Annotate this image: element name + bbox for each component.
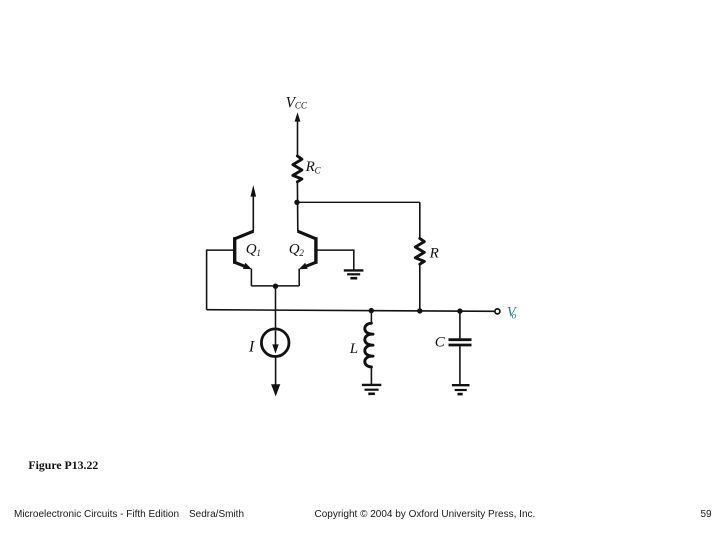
terminal Vo	[495, 309, 500, 314]
svg-text:Microelectronic Circuits - Fif: Microelectronic Circuits - Fifth Edition	[14, 509, 179, 520]
svg-text:R: R	[305, 159, 315, 175]
arrow to VCC supply	[295, 112, 301, 156]
ground (Q2 base)	[344, 270, 364, 278]
svg-text:C: C	[435, 334, 446, 350]
label Q2	[289, 241, 305, 257]
transistor Q1	[235, 231, 254, 269]
node collector junction	[294, 200, 299, 205]
wire Q2 emitter down	[298, 269, 300, 286]
svg-text:Sedra/Smith: Sedra/Smith	[189, 509, 244, 520]
wire Q2 base lead	[316, 250, 354, 269]
node C top	[457, 308, 462, 313]
wire RC to collector node, continues to Q2 collector	[296, 182, 298, 232]
wire C to ground	[459, 346, 461, 384]
ground (C)	[452, 385, 470, 394]
wire rail to L	[370, 311, 372, 324]
inductor L	[365, 323, 373, 367]
current source I	[261, 329, 289, 357]
transistor Q2	[298, 231, 316, 269]
svg-text:Q: Q	[289, 241, 300, 257]
ground (L)	[362, 385, 381, 394]
svg-text:59: 59	[701, 509, 713, 520]
wire Q1 base lead	[207, 250, 235, 310]
wire R to output rail	[419, 264, 421, 311]
svg-text:C: C	[315, 165, 322, 175]
label VCC	[286, 95, 308, 112]
label RC	[305, 159, 322, 175]
node L top	[369, 308, 374, 313]
svg-text:L: L	[349, 341, 358, 357]
svg-text:o: o	[512, 310, 517, 320]
wire L to ground	[370, 367, 372, 384]
svg-text:Q: Q	[246, 241, 257, 257]
svg-text:CC: CC	[295, 101, 308, 111]
svg-text:2: 2	[299, 248, 304, 258]
arrow to negative supply	[271, 384, 280, 396]
svg-text:R: R	[429, 245, 439, 261]
arrow to VCC (Q1 collector)	[251, 185, 257, 231]
wire output rail	[207, 310, 495, 312]
wire current source to negative supply	[275, 357, 277, 386]
node emitter junction	[273, 284, 278, 289]
svg-text:1: 1	[256, 248, 261, 258]
wire collector node to R branch	[297, 201, 420, 203]
svg-text:Figure P13.22: Figure P13.22	[28, 458, 98, 472]
label Q1	[246, 241, 261, 257]
capacitor C	[449, 340, 472, 345]
node R bottom	[417, 308, 422, 313]
wire down to R	[419, 202, 421, 238]
svg-text:Copyright © 2004 by Oxford Uni: Copyright © 2004 by Oxford University Pr…	[315, 509, 536, 520]
resistor RC	[293, 156, 302, 182]
wire emitters join	[251, 285, 299, 287]
wire emitter node to current source	[275, 286, 277, 329]
wire rail to C	[459, 311, 461, 338]
resistor R	[415, 238, 424, 264]
label Vo	[507, 305, 518, 321]
wire Q1 emitter down	[250, 269, 252, 286]
svg-text:I: I	[248, 337, 256, 355]
